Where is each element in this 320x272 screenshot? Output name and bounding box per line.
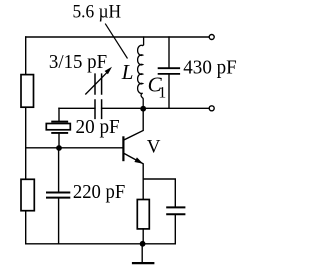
- wire 220pF branch lower: [58, 199, 60, 244]
- wire emitter to bypass cap: [143, 179, 175, 207]
- resistor R2: [21, 179, 34, 210]
- resistor R1: [21, 75, 34, 108]
- wire top rail: [26, 36, 209, 38]
- svg-text:3/15 pF: 3/15 pF: [49, 52, 107, 73]
- wire tank bottom left segment: [59, 107, 95, 109]
- transistor V base bar: [122, 137, 124, 160]
- svg-text:L: L: [121, 60, 134, 84]
- wire base line: [26, 147, 123, 149]
- transistor V emitter wire: [124, 154, 143, 200]
- wire crystal top stub: [58, 108, 60, 121]
- capacitor emitter bypass plates: [167, 207, 184, 214]
- node emitter bottom junction: [140, 241, 146, 247]
- crystal quartz BQ plates: [52, 122, 67, 133]
- transistor emitter arrowhead: [134, 157, 143, 163]
- svg-text:20 pF: 20 pF: [76, 116, 120, 138]
- transistor V collector wire: [124, 109, 143, 140]
- wire bottom rail: [26, 243, 176, 245]
- svg-text:220 pF: 220 pF: [73, 181, 125, 203]
- trimmer capacitor 3/15 pF plates: [95, 74, 102, 94]
- svg-text:5.6 µH: 5.6 µH: [73, 2, 122, 23]
- wire crystal bottom stub: [58, 134, 60, 148]
- terminal output top: [209, 35, 214, 40]
- terminal output bottom: [209, 106, 214, 111]
- ground bar: [133, 262, 153, 264]
- wire R3 to bottom: [142, 229, 144, 244]
- capacitor 220 pF plates: [47, 193, 69, 198]
- resistor R3 emitter: [137, 200, 149, 229]
- capacitor 20 pF plates: [95, 100, 102, 118]
- trimmer arrowhead: [105, 67, 112, 75]
- capacitor C1 430pF plates: [159, 68, 180, 74]
- wire left rail: [25, 37, 27, 244]
- leader line 5.6uH: [105, 24, 127, 59]
- capacitor C1 branch upper wire: [168, 37, 170, 67]
- ground stub: [141, 244, 143, 262]
- trimmer capacitor arrow line: [85, 72, 107, 95]
- node tank bottom junction: [140, 106, 146, 112]
- node base junction: [56, 145, 62, 151]
- wire bypass cap to bottom: [174, 215, 176, 244]
- crystal quartz BQ body: [46, 124, 70, 130]
- svg-text:430 pF: 430 pF: [183, 57, 236, 79]
- capacitor C1 branch lower wire: [168, 75, 170, 109]
- wire 220pF branch upper: [58, 148, 60, 192]
- svg-text:V: V: [147, 137, 161, 158]
- wire tank bottom right segment: [102, 107, 209, 109]
- svg-text:1: 1: [158, 84, 166, 101]
- inductor L coil: [138, 37, 144, 109]
